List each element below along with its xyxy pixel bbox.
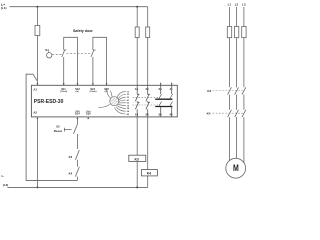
wire A1 drop upper <box>36 7 38 26</box>
wire phase L2 upper <box>236 7 238 27</box>
svg-text:41: 41 <box>127 99 129 102</box>
pin 33 tick above <box>160 83 162 86</box>
fuse F5 <box>234 27 238 38</box>
wire S34 chain upper <box>76 117 78 124</box>
contact S2 <box>74 124 78 134</box>
svg-text:34: 34 <box>127 110 130 113</box>
wire 13 drop lower <box>136 38 138 86</box>
motor M1 <box>226 158 246 178</box>
wire 34/42 bottom stubs <box>161 107 172 117</box>
svg-text:K3: K3 <box>207 89 211 93</box>
wire phases mid1 <box>230 38 244 88</box>
pin S11 tick <box>63 83 65 85</box>
node junction A1 rail <box>36 6 38 8</box>
switch S2 actuator <box>64 128 71 132</box>
svg-text:41: 41 <box>170 87 174 91</box>
svg-text:42: 42 <box>170 113 174 117</box>
fuse F2 <box>135 27 139 38</box>
svg-text:A2: A2 <box>33 110 37 114</box>
svg-text:(In): (In) <box>76 91 79 93</box>
wire S21-S22 loop <box>93 37 107 85</box>
pin 41 tick above <box>171 83 173 86</box>
logic unit K1/K2 circle <box>110 97 119 106</box>
wire 23 drop upper <box>147 7 149 27</box>
svg-text:24: 24 <box>146 113 150 117</box>
node junction K3-N <box>136 186 138 188</box>
wire chain bottom <box>76 177 78 181</box>
svg-text:(L1): (L1) <box>1 6 7 10</box>
wire 23 drop lower <box>147 38 149 86</box>
fuse F1 <box>35 26 40 36</box>
svg-text:33: 33 <box>159 87 163 91</box>
pin A1 tick <box>37 83 39 85</box>
pin S35 tick <box>87 117 89 119</box>
contact K4 feedback <box>75 167 79 177</box>
pin S22 tick <box>106 83 108 85</box>
switch S1 actuator circle <box>47 53 52 58</box>
node junction A2-N <box>36 186 38 188</box>
wire chain mid2 <box>76 160 78 167</box>
wire logic fan-out <box>115 92 126 114</box>
wire 13 drop upper <box>136 7 138 27</box>
fuse F3 <box>146 27 150 38</box>
svg-text:(Clock): (Clock) <box>60 91 67 93</box>
svg-text:S35: S35 <box>86 112 91 116</box>
svg-text:L-: L- <box>2 174 5 178</box>
svg-text:M: M <box>233 163 239 173</box>
wire S11-S12 loop <box>64 37 78 85</box>
wire mech link dashes inside box <box>133 97 159 105</box>
contact bar 1 <box>155 98 172 100</box>
svg-text:(Clock): (Clock) <box>90 91 97 93</box>
svg-text:S21: S21 <box>90 87 95 91</box>
contact 13-14 pair <box>135 85 139 117</box>
wire K3 coil to N <box>136 162 138 188</box>
svg-text:14: 14 <box>135 113 139 117</box>
wire 24 to K4 coil <box>147 117 149 170</box>
svg-text:L2: L2 <box>235 3 239 7</box>
node internal terminal column <box>127 91 130 115</box>
wire logic left links <box>99 89 113 108</box>
wire phase L1 upper <box>229 7 231 27</box>
wire S1 mechanical dashes <box>52 53 91 54</box>
svg-text:K4: K4 <box>69 172 73 176</box>
svg-text:13: 13 <box>135 87 139 91</box>
contact K3 main contacts <box>228 87 246 94</box>
svg-text:34: 34 <box>159 113 163 117</box>
svg-text:L3: L3 <box>242 3 246 7</box>
wire K4 coil to N corner <box>147 176 149 188</box>
wire top supply rail <box>10 6 148 8</box>
svg-text:42: 42 <box>127 113 129 116</box>
svg-text:33: 33 <box>127 97 129 99</box>
svg-text:S34: S34 <box>75 112 80 116</box>
fuse F6 <box>242 27 246 38</box>
svg-text:Reset: Reset <box>54 129 62 133</box>
contact 23-24 pair <box>146 85 150 117</box>
wire chain mid1 <box>76 134 78 149</box>
node L+ (L1) label <box>1 3 7 10</box>
wire phases lower <box>230 117 244 163</box>
contact door contact 1 <box>62 50 67 57</box>
wire phases mid2 <box>230 95 244 110</box>
svg-text:S12: S12 <box>75 87 80 91</box>
contact K3 feedback <box>75 150 79 160</box>
fuse F4 <box>227 27 231 38</box>
wire 14 to K3 coil <box>136 117 138 155</box>
wire A2 drop <box>36 117 38 187</box>
pin A2 tick <box>37 117 39 119</box>
svg-text:24: 24 <box>127 107 130 110</box>
svg-text:23: 23 <box>127 94 129 96</box>
pin S12 tick <box>77 83 79 85</box>
svg-text:23: 23 <box>146 87 150 91</box>
contact 33-34 links <box>161 85 172 94</box>
svg-text:K3: K3 <box>69 155 73 159</box>
svg-text:K3: K3 <box>135 157 139 161</box>
wire A1 drop lower <box>36 36 38 86</box>
wire reset-supply branch <box>26 74 77 180</box>
contact door contact 2 <box>91 50 96 57</box>
svg-text:Safety door: Safety door <box>73 29 94 33</box>
svg-text:K4: K4 <box>207 111 211 115</box>
node junction 13 rail <box>136 6 138 8</box>
contact bar 2 <box>155 106 172 108</box>
svg-text:A1: A1 <box>33 87 37 91</box>
svg-text:53: 53 <box>127 103 129 105</box>
relay U1 PSR-ESD-30 box <box>31 85 177 117</box>
svg-text:K4: K4 <box>147 172 151 176</box>
svg-text:PSR-ESD-30: PSR-ESD-30 <box>34 99 64 105</box>
wire phase L3 upper <box>243 7 245 27</box>
svg-text:(L2): (L2) <box>3 183 9 187</box>
svg-text:14: 14 <box>127 104 130 107</box>
coil K3 <box>129 155 146 161</box>
pin S21 tick <box>92 83 94 85</box>
coil K4 <box>141 170 157 176</box>
svg-text:S2: S2 <box>56 124 60 128</box>
wire N rail <box>8 186 148 188</box>
contact K4 main contacts <box>228 110 246 117</box>
svg-text:S11: S11 <box>61 87 66 91</box>
pin S34 tick <box>77 117 79 119</box>
svg-text:L1: L1 <box>228 3 232 7</box>
svg-text:13: 13 <box>127 91 129 93</box>
